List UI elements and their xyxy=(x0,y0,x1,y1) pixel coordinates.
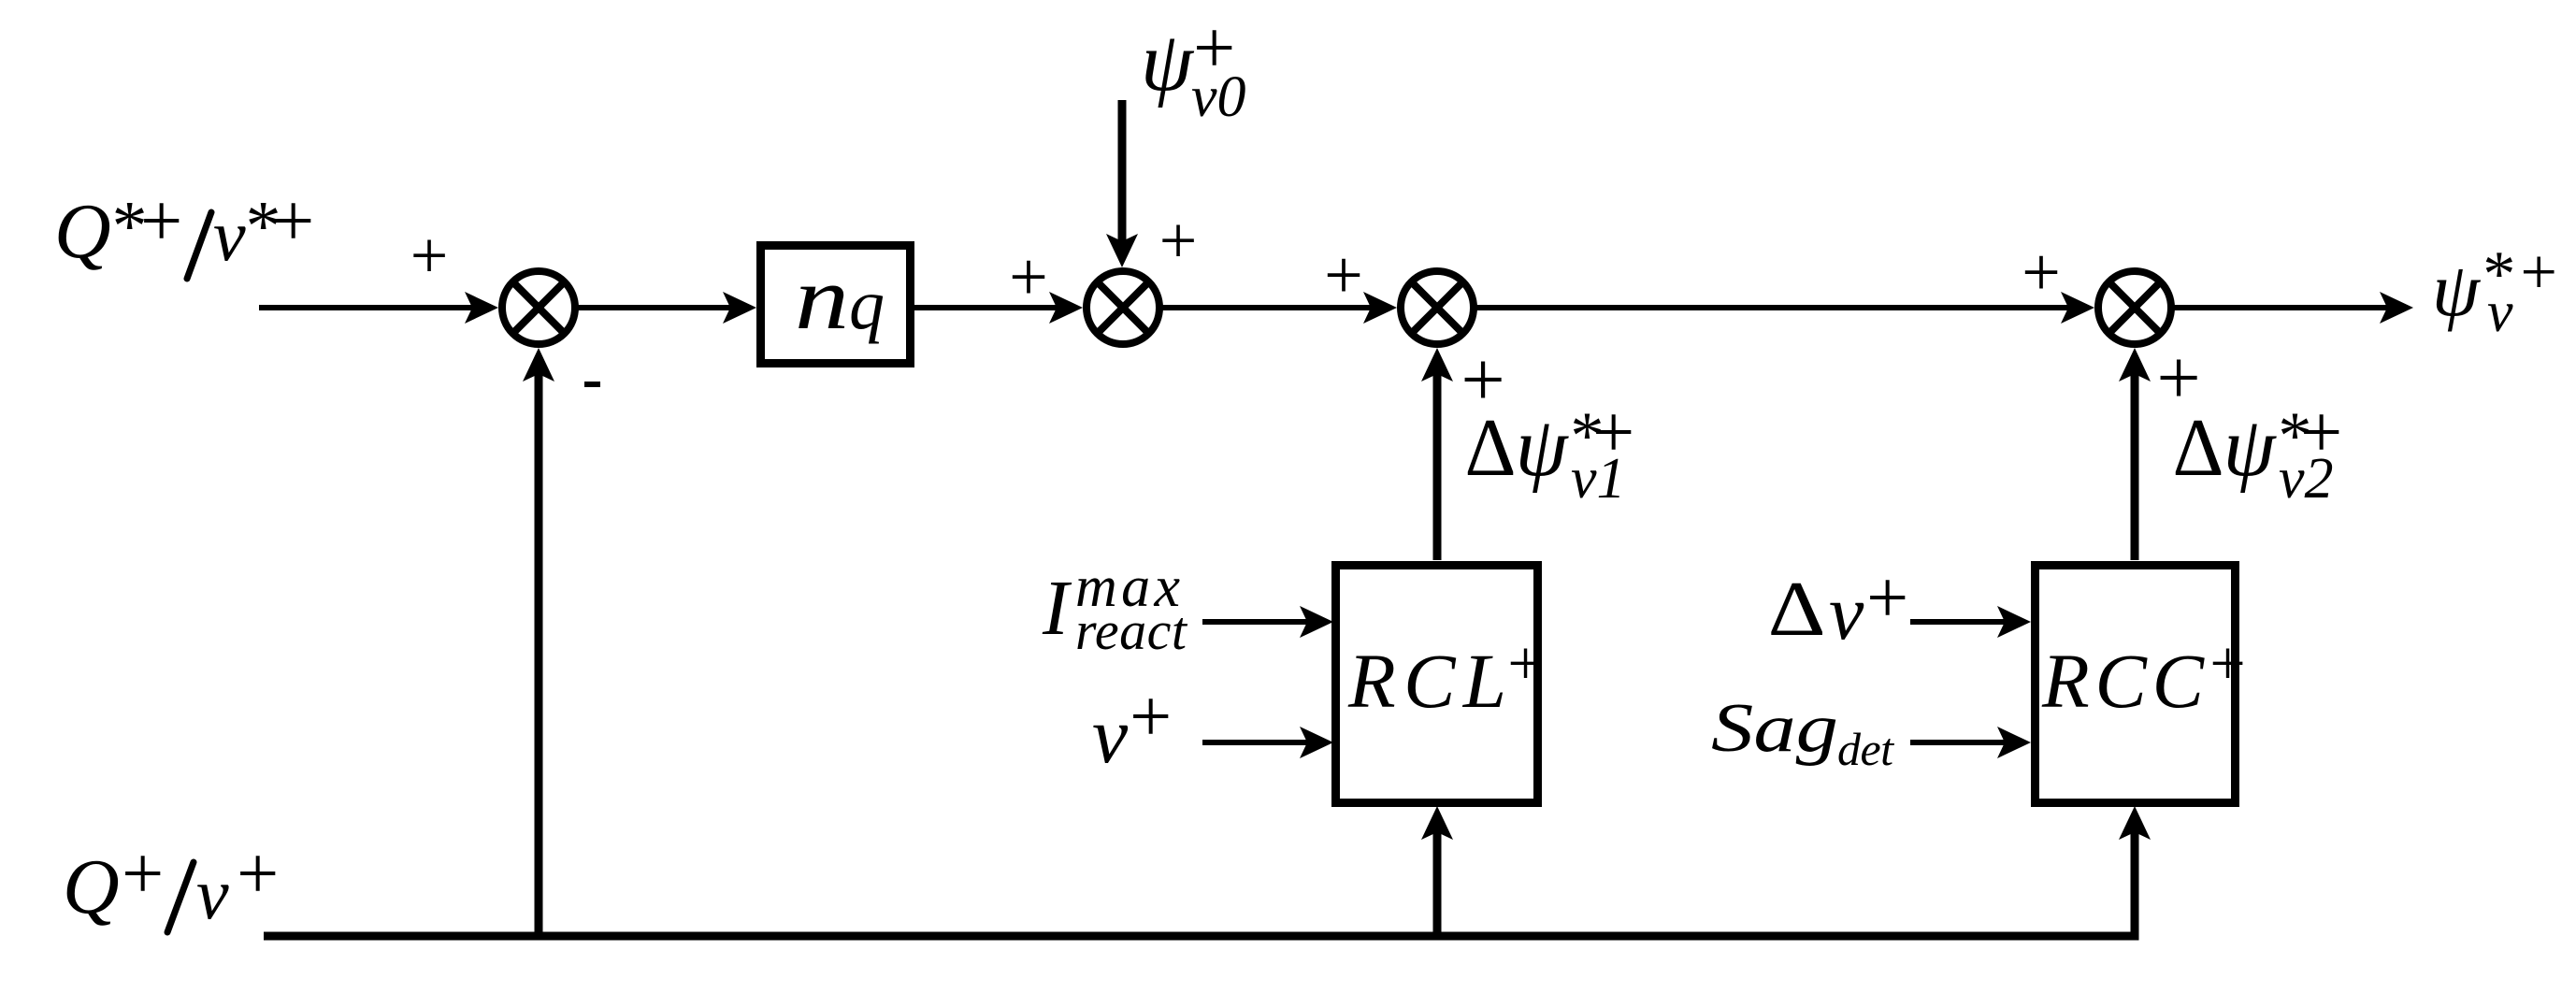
svg-text:v: v xyxy=(213,194,246,276)
svg-text:+: + xyxy=(2516,237,2560,309)
svg-text:Sag: Sag xyxy=(1711,690,1838,767)
svg-text:v1: v1 xyxy=(1571,447,1626,511)
svg-text:+: + xyxy=(117,833,167,915)
svg-text:+: + xyxy=(1009,239,1048,316)
svg-text:+: + xyxy=(1159,203,1198,278)
svg-text:+: + xyxy=(232,833,282,915)
svg-text:ψ: ψ xyxy=(1141,16,1195,108)
svg-text:+: + xyxy=(410,218,449,293)
svg-text:v: v xyxy=(2487,281,2513,344)
svg-text:+: + xyxy=(1862,557,1912,640)
svg-text:det: det xyxy=(1837,723,1894,775)
svg-text:RCC: RCC xyxy=(2041,638,2206,724)
svg-text:ψ: ψ xyxy=(2223,401,2278,494)
svg-text:ψ: ψ xyxy=(1516,401,1570,494)
svg-text:v: v xyxy=(196,853,229,934)
svg-text:v: v xyxy=(1092,690,1129,780)
svg-text:+: + xyxy=(2206,627,2249,699)
svg-text:react: react xyxy=(1075,600,1188,661)
svg-text:+: + xyxy=(1125,676,1175,758)
svg-text:+: + xyxy=(136,180,186,263)
svg-text:+: + xyxy=(1504,627,1547,699)
svg-text:Δ: Δ xyxy=(1768,566,1826,653)
svg-text:RCL: RCL xyxy=(1347,638,1506,724)
svg-text:+: + xyxy=(2022,235,2061,311)
svg-text:+: + xyxy=(1324,238,1363,314)
svg-text:v: v xyxy=(1829,569,1864,656)
svg-text:Δ: Δ xyxy=(1465,403,1517,494)
svg-text:q: q xyxy=(849,266,885,344)
svg-text:+: + xyxy=(267,180,318,263)
svg-text:Q: Q xyxy=(63,843,120,930)
svg-text:Δ: Δ xyxy=(2173,403,2224,494)
svg-text:I: I xyxy=(1042,565,1072,652)
svg-text:Q: Q xyxy=(54,188,111,275)
svg-text:v0: v0 xyxy=(1191,65,1246,129)
svg-text:n: n xyxy=(795,248,849,348)
svg-text:ψ: ψ xyxy=(2432,247,2482,332)
svg-text:v2: v2 xyxy=(2279,447,2334,511)
